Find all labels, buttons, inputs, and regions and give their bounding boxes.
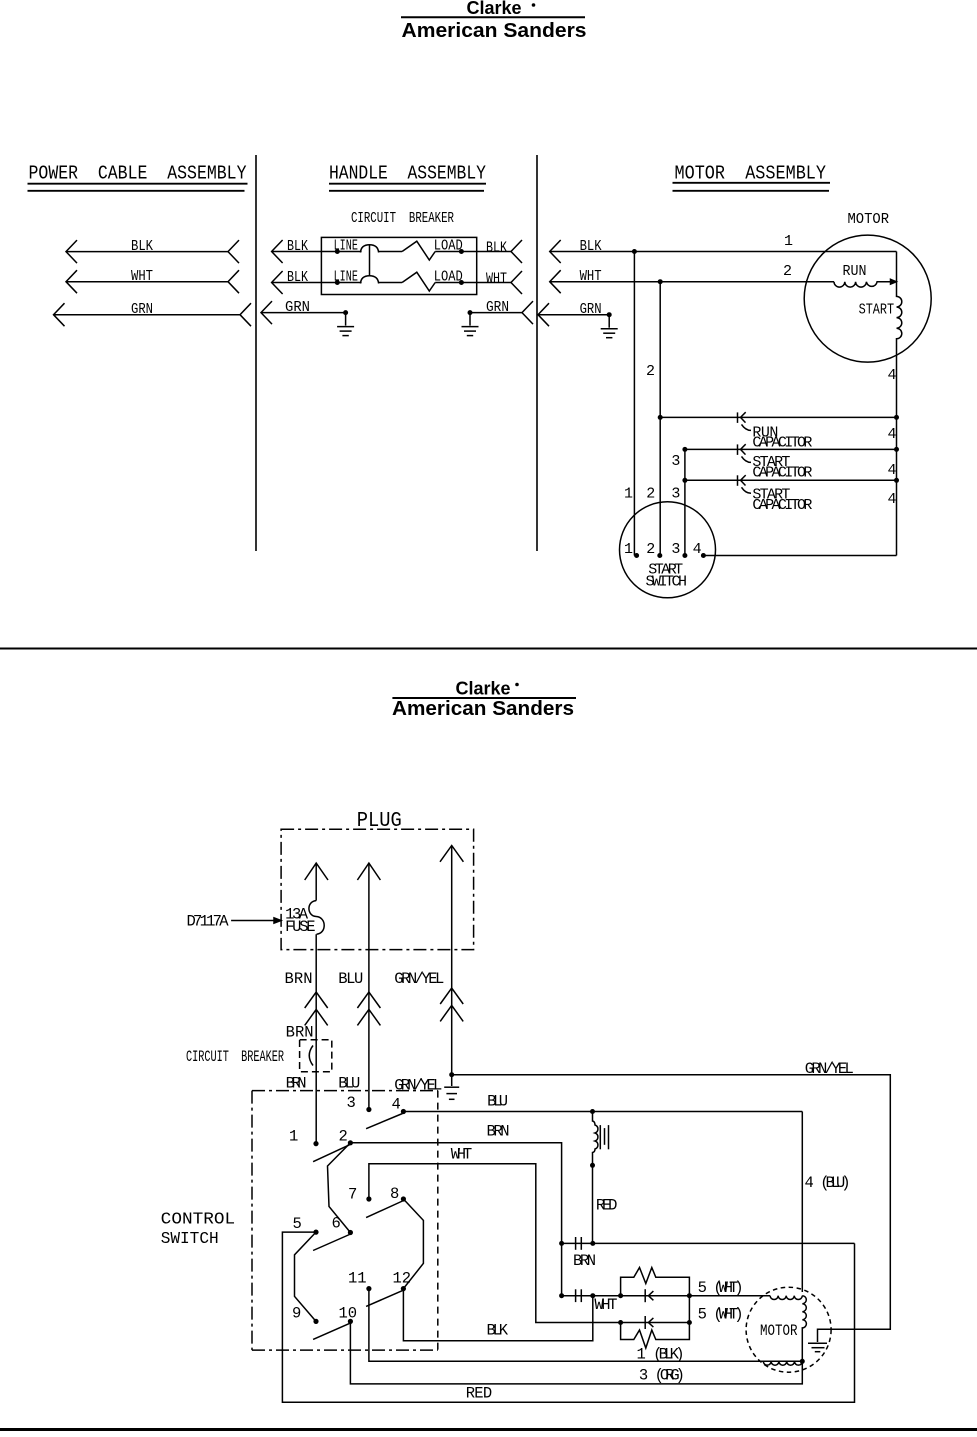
svg-text:3: 3 <box>671 541 680 558</box>
junction row2 left node <box>618 1320 623 1325</box>
breaker CB2 contact arc <box>309 1046 313 1066</box>
run winding L-RUN <box>834 282 891 287</box>
junction switch pin 2 <box>657 553 662 558</box>
ground handle left <box>337 313 354 336</box>
svg-text:3: 3 <box>347 1094 356 1112</box>
svg-text:Clarke: Clarke <box>466 0 521 18</box>
junction GRN/YEL ground tap <box>449 1072 454 1077</box>
svg-text:2: 2 <box>646 541 655 558</box>
wire 3 vertical to start switch <box>684 449 686 555</box>
junction LOAD terminal row2 <box>459 280 464 285</box>
svg-text:BLK: BLK <box>131 238 153 255</box>
title underline 1 <box>329 183 486 185</box>
svg-text:POWER CABLE ASSEMBLY: POWER CABLE ASSEMBLY <box>29 163 248 185</box>
switch blade 8-7 <box>366 1201 402 1218</box>
title underline 2 <box>673 190 830 192</box>
junction handle GRN right ground tap <box>468 310 473 315</box>
capacitor WHT (parallel plates) <box>576 1289 582 1302</box>
connector chevron BLU upper <box>357 992 380 1008</box>
wire RED coil to BRN cap <box>592 1165 594 1243</box>
label RUN CAPACITOR <box>752 424 812 451</box>
connector chevron BLU lower <box>357 1009 380 1025</box>
junction switch pin 3 <box>682 553 687 558</box>
wire row2 LOAD out <box>435 282 511 284</box>
title underline 2 <box>28 190 245 192</box>
wire start capacitor row 2 <box>685 479 897 481</box>
junction start cap2 right <box>894 478 899 483</box>
label START CAPACITOR 2 <box>752 486 812 514</box>
svg-text:MOTOR ASSEMBLY: MOTOR ASSEMBLY <box>675 163 827 185</box>
capacitor symbol C row2 <box>645 1316 653 1329</box>
wire 3 (ORG) switch 10 to motor <box>350 1321 802 1384</box>
junction run cap right <box>894 415 899 420</box>
switch linkage 8-12 <box>403 1199 423 1289</box>
ground handle right <box>462 313 479 336</box>
switch blade 10-9 <box>313 1323 349 1339</box>
connector chevron GRN/YEL lower <box>440 1005 463 1021</box>
relay coil (inductor with core) <box>593 1112 609 1165</box>
section divider line left <box>255 155 257 551</box>
svg-text:GRN/YEL: GRN/YEL <box>394 970 444 988</box>
svg-text:1: 1 <box>784 233 793 250</box>
wire BRN (switch 2) <box>350 1143 561 1244</box>
svg-text:1: 1 <box>289 1128 298 1146</box>
wire GRN handle left <box>261 312 346 314</box>
connector chevron BLK left end <box>66 240 77 263</box>
svg-text:GRN: GRN <box>285 299 310 316</box>
switch terminal 11 <box>348 1270 372 1292</box>
plug pin arrow 2 (BLU) <box>357 863 380 1109</box>
motor top winding <box>770 1296 802 1300</box>
junction run cap left <box>658 415 663 420</box>
label 13A FUSE <box>285 906 316 937</box>
svg-text:SWITCH: SWITCH <box>161 1230 219 1249</box>
title underline 2 <box>329 190 484 192</box>
svg-text:BLU: BLU <box>487 1092 508 1110</box>
svg-text:FUSE: FUSE <box>285 918 316 936</box>
svg-text:5 (WHT): 5 (WHT) <box>698 1279 744 1297</box>
svg-text:BRN: BRN <box>573 1252 596 1270</box>
title underline 1 <box>28 183 248 185</box>
svg-text:3: 3 <box>671 486 680 503</box>
motor bottom winding <box>763 1361 802 1365</box>
svg-text:4: 4 <box>888 367 897 384</box>
svg-text:5: 5 <box>293 1215 302 1233</box>
breaker thermal zigzag row2 <box>402 272 435 291</box>
junction LOAD terminal row1 <box>459 249 464 254</box>
run winding junction arrow <box>891 279 897 284</box>
switch linkage 5-9 <box>295 1232 317 1321</box>
svg-text:WHT: WHT <box>594 1296 617 1314</box>
svg-text:CIRCUIT BREAKER: CIRCUIT BREAKER <box>351 210 454 227</box>
svg-text:5 (WHT): 5 (WHT) <box>698 1306 744 1324</box>
svg-text:2: 2 <box>339 1128 348 1146</box>
svg-text:1: 1 <box>624 486 633 503</box>
svg-text:1: 1 <box>624 541 633 558</box>
junction LINE terminal row2 <box>335 280 340 285</box>
junction WHT cap left <box>559 1293 564 1298</box>
wire GRN handle right <box>470 312 522 314</box>
svg-text:3 (ORG): 3 (ORG) <box>639 1366 685 1384</box>
wire WHT (motor assembly) <box>550 281 834 283</box>
label START CAPACITOR 1 <box>752 454 812 481</box>
wire BLK (switch 12) <box>403 1289 592 1341</box>
connector chevron GRN right end <box>240 303 251 326</box>
breaker gang link bar <box>369 245 371 276</box>
svg-text:10: 10 <box>339 1305 358 1323</box>
svg-text:6: 6 <box>332 1214 341 1232</box>
svg-text:8: 8 <box>390 1185 399 1203</box>
switch terminal 1 <box>289 1128 319 1147</box>
svg-text:START: START <box>859 302 895 319</box>
switch blade 6-5 <box>313 1235 349 1251</box>
junction WHT branch <box>658 279 663 284</box>
label CONTROL SWITCH <box>161 1210 235 1249</box>
circuit breaker CB2 box (dashed) <box>300 1040 332 1072</box>
svg-text:4: 4 <box>888 462 897 479</box>
wire WHT capacitor row <box>562 1295 690 1297</box>
control switch box (dash-dot) <box>252 1091 438 1351</box>
connector chevron BRN upper <box>305 992 328 1008</box>
svg-text:WHT: WHT <box>580 268 602 285</box>
wire BRN capacitor row <box>562 1242 855 1244</box>
logo registered mark (page 2) <box>515 683 519 687</box>
wire right node column <box>688 1296 690 1323</box>
svg-text:7: 7 <box>348 1186 357 1204</box>
wire 1 vertical to start switch <box>633 252 635 556</box>
junction motor GRN ground tap <box>607 312 612 317</box>
svg-text:SWITCH: SWITCH <box>646 574 688 591</box>
title underline 1 <box>673 182 831 184</box>
switch terminal 8 <box>390 1185 406 1203</box>
svg-text:BLK: BLK <box>580 238 602 255</box>
resistor R row2 (bypass below) <box>621 1323 690 1349</box>
junction motor terminal <box>800 1359 805 1364</box>
wire GRN/YEL to motor ground <box>452 1075 891 1342</box>
switch terminal 4 <box>392 1096 407 1115</box>
junction handle GRN left ground tap <box>343 310 348 315</box>
plug pin arrow 3 (GRN/YEL) <box>440 846 463 1075</box>
switch blade 12-11 <box>366 1291 402 1307</box>
wire 1 (BLK) switch 11 to motor <box>369 1289 802 1362</box>
wire BLK (motor assembly) <box>550 251 897 253</box>
svg-text:2: 2 <box>646 363 655 380</box>
wire start capacitor row 1 <box>685 448 897 450</box>
wire RED (switch 5) <box>282 1232 854 1402</box>
ground GRN/YEL tap <box>444 1075 459 1100</box>
svg-text:WHT: WHT <box>131 268 153 285</box>
leader arrow D7117A <box>231 918 281 923</box>
junction BLK branch <box>632 249 637 254</box>
connector chevron handle GRN left <box>261 301 272 324</box>
breaker thermal zigzag row1 <box>402 241 435 260</box>
svg-text:MOTOR: MOTOR <box>848 211 890 228</box>
wire row2 <box>621 1322 690 1324</box>
svg-text:GRN: GRN <box>486 299 509 316</box>
svg-text:BLK: BLK <box>487 1322 509 1340</box>
svg-text:GRN/YEL: GRN/YEL <box>394 1076 442 1094</box>
connector chevron WHT right end <box>228 270 239 293</box>
page divider rule <box>0 648 977 650</box>
connector chevron handle GRN right <box>522 301 533 324</box>
motor M2 circle (dashed) <box>746 1287 831 1372</box>
capacitor symbol C row1 <box>645 1289 653 1302</box>
svg-text:2: 2 <box>783 263 792 280</box>
wire rows to motor winding <box>689 1295 770 1297</box>
capacitor symbol run capacitor C1 <box>738 412 752 430</box>
wire WHT (power cable) <box>66 281 228 283</box>
switch terminal 6 <box>332 1214 354 1235</box>
bottom border rule <box>0 1428 977 1431</box>
ground motor assembly <box>601 315 618 338</box>
wire BLK (power cable) <box>66 251 228 253</box>
switch terminal 10 <box>339 1305 358 1325</box>
svg-text:CIRCUIT BREAKER: CIRCUIT BREAKER <box>186 1048 284 1066</box>
svg-text:BRN: BRN <box>487 1122 510 1140</box>
svg-text:MOTOR: MOTOR <box>760 1322 798 1340</box>
breaker contact arc row2 <box>361 276 379 284</box>
junction start cap1 left <box>682 447 687 452</box>
connector chevron motor WHT left <box>550 270 561 293</box>
svg-text:D7117A: D7117A <box>187 913 230 931</box>
connector chevron GRN left end <box>54 303 65 326</box>
wire row1 LOAD out <box>435 251 511 253</box>
connector chevron GRN/YEL upper <box>440 988 463 1004</box>
junction switch pin 1 <box>634 553 639 558</box>
svg-text:Clarke: Clarke <box>455 679 510 699</box>
svg-text:HANDLE ASSEMBLY: HANDLE ASSEMBLY <box>329 163 487 185</box>
connector chevron handle row2 right <box>511 271 522 294</box>
wire BLU (switch 4 to motor) <box>403 1111 802 1113</box>
svg-text:1 (BLK): 1 (BLK) <box>637 1345 685 1363</box>
motor M1 circle <box>804 235 931 362</box>
svg-text:BLU: BLU <box>338 1075 360 1093</box>
label START SWITCH <box>646 562 688 591</box>
wire pin4 to terminal 4 <box>703 555 896 557</box>
start switch S1 circle <box>620 502 716 598</box>
junction coil top <box>590 1109 595 1114</box>
svg-text:RED: RED <box>466 1385 493 1403</box>
junction start cap2 junction <box>682 478 687 483</box>
wire row1 to zigzag <box>378 251 402 253</box>
svg-text:LOAD: LOAD <box>434 268 463 285</box>
junction switch pin 4 <box>701 553 706 558</box>
svg-text:CONTROL: CONTROL <box>161 1210 235 1229</box>
wire row2 to zigzag <box>378 282 402 284</box>
svg-text:GRN: GRN <box>131 301 153 318</box>
start winding L-START <box>897 282 902 556</box>
capacitor symbol start capacitor C2 <box>738 444 752 462</box>
wire BLK row1 into breaker <box>272 251 362 253</box>
wire BRN below fuse <box>315 934 317 1143</box>
svg-text:WHT: WHT <box>486 271 507 288</box>
switch terminal 12 <box>393 1270 412 1292</box>
wire BLK row2 into breaker <box>272 282 362 284</box>
plug P1 box (dash-dot) <box>281 829 474 949</box>
switch terminal 7 <box>348 1186 372 1204</box>
svg-text:BLK: BLK <box>287 238 308 255</box>
svg-text:CAPACITOR: CAPACITOR <box>752 464 812 481</box>
svg-text:4 (BLU): 4 (BLU) <box>805 1174 851 1192</box>
svg-text:GRN/YEL: GRN/YEL <box>805 1060 854 1078</box>
svg-text:BRN: BRN <box>286 1075 307 1093</box>
capacitor BRN (parallel plates) <box>576 1237 582 1250</box>
junction row1 left node <box>618 1293 623 1298</box>
logo divider line (page 1) <box>401 16 585 18</box>
svg-text:American Sanders: American Sanders <box>392 697 574 720</box>
junction LINE terminal row1 <box>335 249 340 254</box>
switch linkage 2-6 <box>328 1143 351 1233</box>
switch terminal 3 <box>347 1094 372 1112</box>
wire 2 vertical to start switch <box>659 282 661 556</box>
connector chevron handle row1 right <box>511 240 522 263</box>
capacitor symbol start capacitor C3 <box>738 475 752 493</box>
plug pin arrow 1 (BRN) <box>305 863 328 901</box>
motor right winding <box>802 1296 806 1362</box>
svg-text:RUN: RUN <box>843 263 867 280</box>
fuse F1 13A <box>309 901 324 935</box>
svg-text:BLK: BLK <box>486 240 507 257</box>
svg-text:12: 12 <box>393 1270 412 1288</box>
wire run capacitor row <box>660 416 896 418</box>
svg-text:RED: RED <box>596 1197 618 1215</box>
svg-text:4: 4 <box>888 491 897 508</box>
junction row2 right node <box>687 1320 692 1325</box>
switch terminal 9 <box>292 1305 319 1325</box>
ground motor (page2) <box>808 1343 827 1352</box>
svg-text:4: 4 <box>888 426 897 443</box>
connector chevron handle row1 left <box>272 240 283 263</box>
logo registered mark (page 1) <box>532 3 536 7</box>
circuit breaker CB1 box <box>321 237 476 294</box>
junction WHT cap right <box>590 1293 595 1298</box>
svg-text:BRN: BRN <box>286 1023 314 1041</box>
svg-text:BRN: BRN <box>285 970 313 988</box>
wire WHT (switch 7) <box>369 1164 621 1323</box>
connector chevron motor BLK left <box>550 240 561 263</box>
svg-text:WHT: WHT <box>451 1145 473 1163</box>
resistor R row1 (bypass above) <box>621 1268 690 1296</box>
svg-text:3: 3 <box>671 453 680 470</box>
wire terminal 1 drop <box>896 252 898 282</box>
connector chevron BRN lower <box>305 1009 328 1025</box>
junction start cap1 right <box>894 447 899 452</box>
junction BRN cap right <box>590 1241 595 1246</box>
svg-text:GRN: GRN <box>580 301 602 318</box>
wire 4 (BLU) vertical <box>801 1112 803 1293</box>
svg-text:CAPACITOR: CAPACITOR <box>752 497 812 514</box>
wire GRN (motor assembly) <box>538 314 609 316</box>
svg-text:LOAD: LOAD <box>434 237 463 254</box>
svg-text:4: 4 <box>693 541 702 558</box>
switch blade 4-3 <box>366 1114 402 1129</box>
connector chevron BLK right end <box>228 240 239 263</box>
wire left column (BRN to WHT row) <box>561 1243 563 1295</box>
logo divider line (page 2) <box>392 697 576 699</box>
wire GRN (power cable) <box>54 314 241 316</box>
junction row1 right node <box>687 1293 692 1298</box>
svg-text:11: 11 <box>348 1270 367 1288</box>
connector chevron handle row2 left <box>272 271 283 294</box>
junction BRN cap left <box>559 1241 564 1246</box>
junction coil bottom <box>590 1163 595 1168</box>
switch blade 2-1 <box>313 1145 349 1162</box>
connector chevron WHT left end <box>66 270 77 293</box>
breaker contact arc row1 <box>361 245 379 253</box>
svg-text:BLK: BLK <box>287 269 308 286</box>
svg-text:4: 4 <box>392 1096 401 1114</box>
svg-text:American Sanders: American Sanders <box>402 19 587 42</box>
switch terminal 5 <box>293 1215 319 1235</box>
svg-text:2: 2 <box>646 486 655 503</box>
connector chevron motor GRN left <box>538 303 549 326</box>
svg-text:9: 9 <box>292 1305 301 1323</box>
switch terminal 2 <box>339 1128 354 1146</box>
svg-text:BLU: BLU <box>338 970 363 988</box>
section divider line right <box>536 155 538 551</box>
